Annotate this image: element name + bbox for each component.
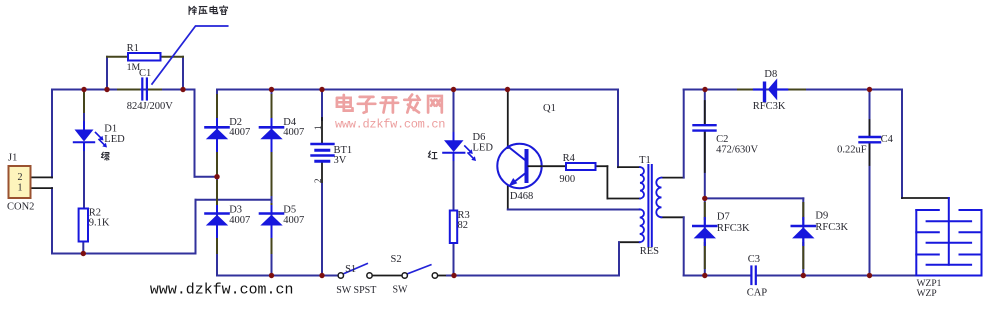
- svg-text:9.1K: 9.1K: [89, 217, 110, 228]
- wire top rail right: [684, 89, 902, 91]
- junction: [269, 273, 274, 278]
- wire: [52, 89, 195, 91]
- wire RES bottom: [619, 241, 640, 243]
- watermark dzkfw: [337, 95, 442, 113]
- resistor R3: [450, 211, 457, 244]
- battery BT1: [312, 144, 334, 161]
- wire R4 to winding bottom: [596, 165, 608, 167]
- callout line to C1: [152, 26, 228, 84]
- svg-text:0.22uF: 0.22uF: [837, 144, 867, 155]
- svg-text:SW SPST: SW SPST: [336, 285, 376, 296]
- svg-text:D468: D468: [510, 191, 533, 202]
- resistor R2: [79, 209, 88, 242]
- diode D3: [206, 181, 229, 253]
- wire: [194, 90, 196, 177]
- junction: [180, 87, 185, 92]
- wire mid rail: [705, 197, 804, 199]
- svg-text:1: 1: [313, 126, 323, 131]
- wire R1 leads olive: [107, 56, 128, 58]
- junction: [451, 87, 456, 92]
- wire: [196, 199, 272, 201]
- svg-text:WZP: WZP: [917, 289, 937, 299]
- svg-text:SW: SW: [393, 285, 409, 296]
- wire battery column top: [321, 90, 323, 121]
- junction: [269, 87, 274, 92]
- svg-text:D1: D1: [104, 123, 117, 134]
- svg-text:D8: D8: [764, 69, 777, 80]
- svg-text:900: 900: [559, 174, 575, 185]
- LED D1: [74, 130, 107, 148]
- svg-text:RFC3K: RFC3K: [753, 101, 786, 112]
- wire C2 D7 column: [704, 90, 706, 125]
- svg-text:CAP: CAP: [747, 287, 768, 298]
- wire bottom rail segs: [217, 275, 338, 277]
- wire emitter to RES: [508, 209, 640, 211]
- svg-text:4007: 4007: [283, 215, 304, 226]
- connector J1: [9, 166, 31, 198]
- svg-text:4007: 4007: [229, 127, 250, 138]
- svg-text:Q1: Q1: [543, 103, 556, 114]
- svg-text:RFC3K: RFC3K: [815, 222, 848, 233]
- battery pin bottom: [321, 162, 323, 187]
- wire D9 column: [802, 198, 804, 275]
- diode D2: [206, 95, 229, 174]
- junction: [81, 251, 86, 256]
- svg-text:S1: S1: [345, 264, 356, 275]
- svg-text:2: 2: [18, 172, 23, 183]
- capacitor C3: [750, 267, 752, 285]
- svg-text:824J/200V: 824J/200V: [127, 101, 174, 112]
- wire secondary bottom: [662, 216, 684, 218]
- svg-text:C2: C2: [716, 134, 728, 145]
- junction: [702, 196, 707, 201]
- transistor Q1: [497, 144, 541, 188]
- svg-text:J1: J1: [8, 152, 17, 163]
- junction: [319, 87, 324, 92]
- svg-text:472/630V: 472/630V: [716, 144, 758, 155]
- svg-text:2: 2: [313, 179, 323, 184]
- svg-text:D3: D3: [229, 204, 242, 215]
- svg-text:D9: D9: [815, 210, 828, 221]
- wire top rail to primary top: [617, 90, 619, 168]
- wire D8 olive leads: [738, 89, 754, 91]
- resistor R4: [566, 163, 596, 170]
- transformer T1 feedback winding RES: [640, 209, 644, 242]
- junction: [702, 87, 707, 92]
- svg-text:82: 82: [458, 220, 469, 231]
- transformer T1 primary winding: [640, 167, 644, 198]
- transformer T1 core: [647, 165, 649, 246]
- junction: [451, 273, 456, 278]
- svg-text:1: 1: [18, 182, 23, 193]
- svg-text:4007: 4007: [283, 127, 304, 138]
- svg-text:4007: 4007: [229, 215, 250, 226]
- LED D6: [443, 140, 476, 161]
- diode D5: [260, 204, 283, 253]
- battery pin top: [321, 118, 323, 144]
- wire bottom rail right: [684, 275, 751, 277]
- svg-text:3V: 3V: [334, 155, 347, 166]
- junction: [702, 273, 707, 278]
- wire D1 to R2: [83, 143, 85, 209]
- switch S2: [402, 265, 438, 278]
- wire: [51, 188, 53, 253]
- svg-text:www.dzkfw.com.cn: www.dzkfw.com.cn: [150, 283, 294, 299]
- wire R2 to rail: [82, 241, 84, 253]
- junction: [81, 87, 86, 92]
- svg-text:www.dzkfw.com.cn: www.dzkfw.com.cn: [335, 118, 446, 132]
- switch S1: [338, 264, 372, 279]
- capacitor C4: [860, 136, 881, 138]
- junction: [801, 273, 806, 278]
- diode D7: [693, 203, 716, 268]
- svg-text:R4: R4: [563, 153, 576, 164]
- svg-text:C3: C3: [748, 254, 760, 265]
- junction: [867, 273, 872, 278]
- wire top rail: [217, 89, 618, 91]
- wire: [51, 90, 53, 178]
- svg-text:S2: S2: [391, 254, 402, 265]
- wire battery column bottom: [321, 184, 323, 276]
- svg-text:RES: RES: [640, 246, 659, 257]
- electrode WZP1: [916, 198, 981, 276]
- wire R1 right riser: [182, 57, 184, 90]
- junction: [104, 87, 109, 92]
- pin stubs J1: [31, 176, 53, 178]
- wire Q1 base to R4: [541, 165, 566, 167]
- wire rail through C1: [107, 89, 141, 91]
- svg-text:LED: LED: [473, 143, 494, 154]
- svg-text:T1: T1: [639, 155, 651, 166]
- label hong (red): [428, 151, 437, 159]
- svg-text:C4: C4: [881, 134, 894, 145]
- label lv (green): [101, 152, 109, 160]
- wire: [195, 176, 218, 178]
- junction: [214, 174, 219, 179]
- wire WZP feed: [901, 90, 903, 199]
- wire: [195, 200, 197, 254]
- label jiangyadianrong (step-down capacitor): [189, 6, 227, 15]
- wire: [52, 253, 196, 255]
- diode D4: [260, 95, 283, 195]
- wire D4 D5 column: [271, 90, 273, 276]
- diode lead stubs blue: [84, 119, 803, 245]
- wire C4 column: [869, 90, 871, 137]
- resistor R1: [128, 53, 161, 61]
- wire D1 column: [83, 90, 85, 130]
- junction: [867, 87, 872, 92]
- svg-text:D5: D5: [283, 204, 296, 215]
- junction: [505, 87, 510, 92]
- svg-text:RFC3K: RFC3K: [717, 223, 750, 234]
- capacitor C2: [694, 124, 716, 126]
- svg-text:CON2: CON2: [7, 201, 34, 212]
- svg-text:LED: LED: [104, 134, 125, 145]
- wire D2 D3 column: [216, 90, 218, 276]
- diode D9: [792, 203, 815, 268]
- wire Q1 emitter down: [507, 186, 509, 210]
- wire olive segs beside C1: [118, 89, 139, 91]
- diode D8: [754, 78, 787, 100]
- transformer T1 secondary winding: [656, 178, 661, 218]
- wire R1 left riser: [106, 57, 108, 90]
- svg-text:D7: D7: [717, 211, 730, 222]
- wire Q1 collector: [507, 90, 509, 149]
- capacitor C1: [141, 79, 143, 100]
- svg-text:WZP1: WZP1: [917, 279, 942, 289]
- junction: [319, 273, 324, 278]
- svg-text:C1: C1: [139, 68, 151, 79]
- wire secondary top: [662, 177, 684, 179]
- svg-text:R1: R1: [127, 43, 139, 54]
- wire D6 R3 column: [453, 90, 455, 141]
